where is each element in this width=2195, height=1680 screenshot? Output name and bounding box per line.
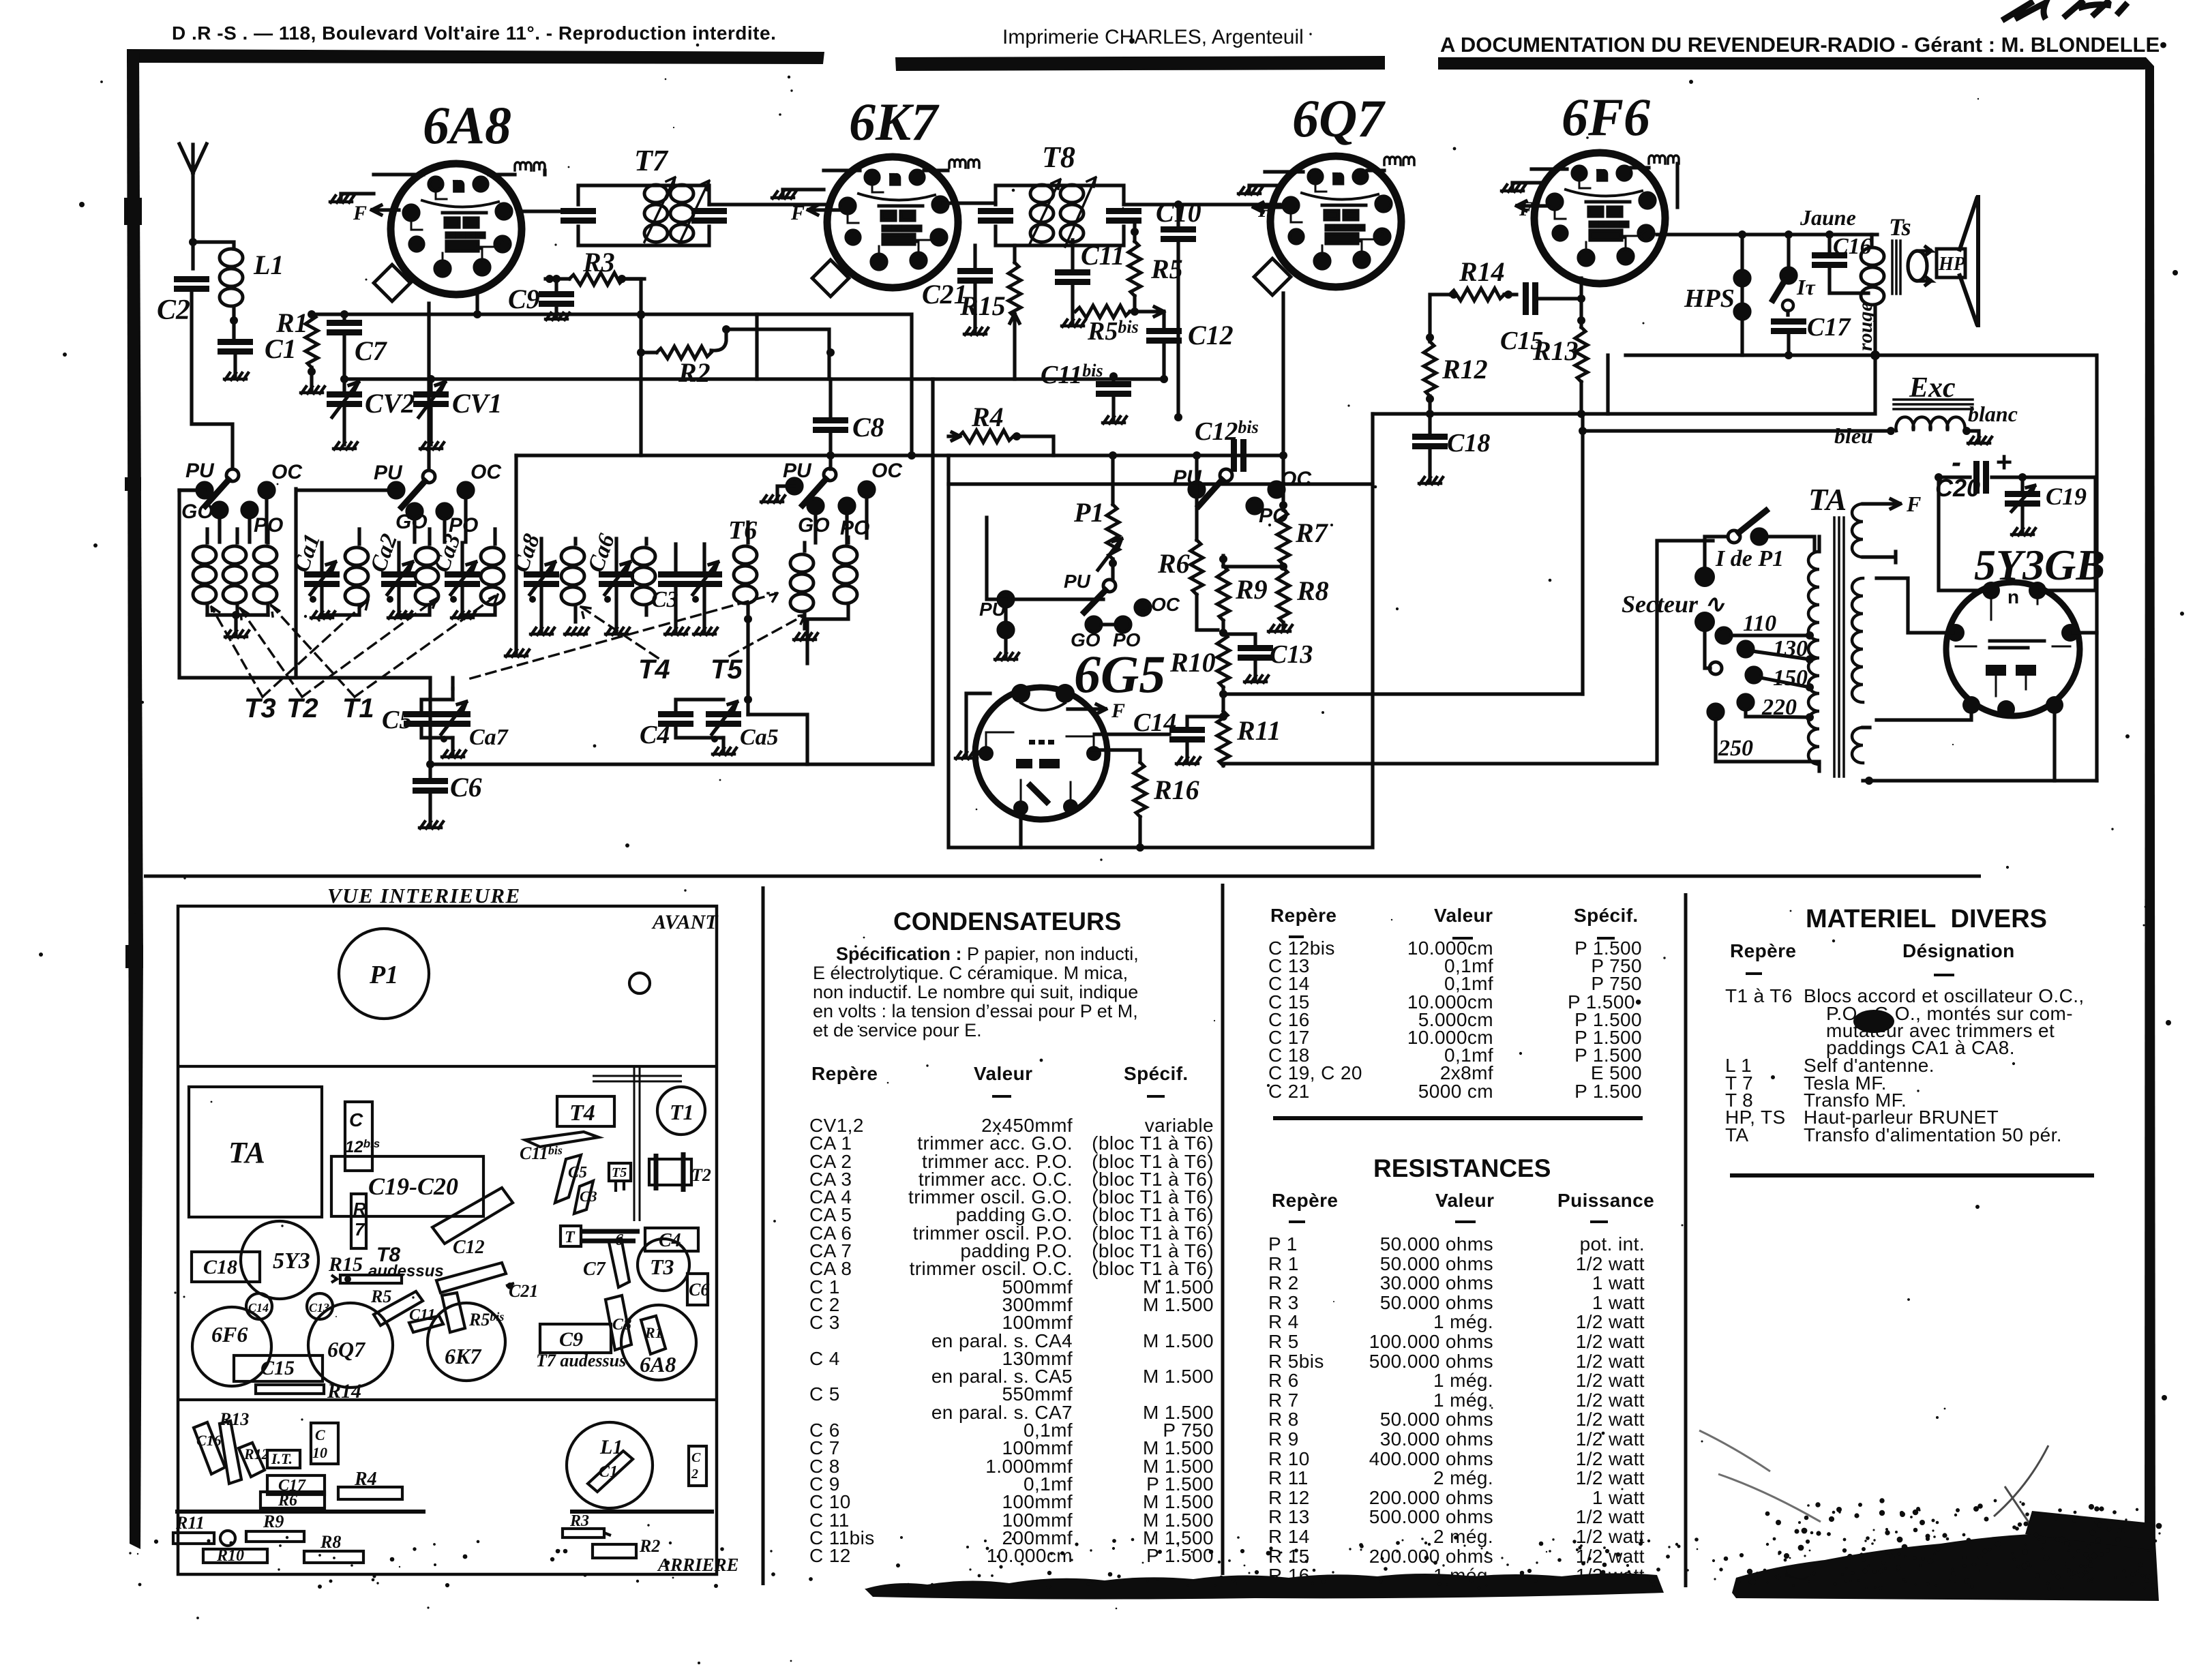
capacitor C13 (1223, 634, 1273, 679)
svg-text:R14: R14 (327, 1380, 361, 1402)
antenna (179, 144, 207, 269)
capacitor C4 (658, 700, 723, 738)
variable capacitor CV2 (327, 379, 362, 445)
svg-text:C: C (349, 1109, 363, 1130)
resistor R15 strip (331, 1275, 402, 1283)
svg-text:6Q7: 6Q7 (1292, 89, 1386, 148)
coil T6 (734, 522, 757, 715)
svg-text:OC: OC (1281, 468, 1312, 490)
ground Ca3 (451, 612, 475, 618)
ground SW5 (995, 653, 1019, 660)
wire bus y690 (516, 453, 1282, 457)
svg-text:AVANT: AVANT (651, 911, 719, 933)
node IT tap (1785, 230, 1793, 239)
wire R13 to y1006 (1581, 414, 1584, 694)
cap C5 strip (555, 1155, 581, 1203)
svg-text:1 még.: 1 még. (1433, 1390, 1493, 1411)
svg-text:I de P1: I de P1 (1715, 546, 1784, 571)
switch SW1 (179, 469, 274, 542)
svg-text:R 14: R 14 (1268, 1526, 1310, 1547)
tube T1 circle (657, 1087, 705, 1135)
column rule 3 (1684, 893, 1688, 1587)
svg-text:Repère: Repère (1730, 940, 1796, 961)
svg-text:PU: PU (783, 460, 812, 482)
cap C17 box lower (267, 1475, 325, 1495)
svg-text:50.000 ohms: 50.000 ohms (1380, 1233, 1493, 1255)
capacitor C7 (327, 310, 362, 383)
svg-text:E électrolytique. C céramique.: E électrolytique. C céramique. M mica, (813, 963, 1128, 983)
svg-text:PO: PO (840, 517, 869, 539)
svg-text:6A8: 6A8 (423, 95, 511, 155)
svg-text:R1: R1 (644, 1324, 663, 1341)
svg-text:M 1.500: M 1.500 (1143, 1330, 1214, 1351)
svg-text:PO: PO (449, 514, 478, 537)
ground C3 Ca4 (665, 628, 717, 635)
svg-text:R 5bis: R 5bis (1268, 1351, 1324, 1372)
svg-text:TA: TA (1808, 482, 1847, 517)
switch SW5 (987, 517, 1150, 657)
wire C8 riser (828, 379, 832, 416)
coil bank4b (807, 537, 857, 663)
svg-text:HPS: HPS (1684, 284, 1735, 313)
svg-text:F: F (1519, 198, 1533, 220)
resistor R14 strip (256, 1385, 324, 1394)
cap C18 box (192, 1252, 260, 1282)
resistor R6 box lower (260, 1492, 325, 1510)
trimmer T5 block (609, 1163, 631, 1192)
svg-text:R13: R13 (219, 1409, 249, 1429)
svg-text:C3: C3 (580, 1188, 597, 1205)
svg-text:TA: TA (1725, 1124, 1749, 1145)
ground coil4a (794, 633, 818, 640)
svg-text:R 12: R 12 (1268, 1487, 1310, 1508)
transformer TA sec F (1852, 499, 1900, 562)
ground under R8 (1268, 625, 1292, 632)
cap C2 box lower (689, 1446, 706, 1486)
svg-text:30.000 ohms: 30.000 ohms (1380, 1272, 1493, 1293)
svg-text:pot. int.: pot. int. (1580, 1233, 1645, 1255)
ground under C13 (1244, 676, 1268, 682)
node L1 bottom (230, 316, 238, 325)
cap C11 strip (409, 1306, 443, 1332)
svg-text:T3: T3 (650, 1255, 674, 1279)
resistor R13 (1575, 278, 1587, 418)
chassis rail right (570, 1510, 714, 1514)
svg-text:C11: C11 (1081, 240, 1124, 271)
wire 6F6 plate line (1657, 232, 1872, 236)
resistor R10 (1217, 633, 1229, 711)
svg-text:L1: L1 (253, 250, 284, 280)
wire T7 to 6K7 (709, 202, 827, 206)
cap C10 box lower (311, 1423, 338, 1464)
svg-text:1/2 watt: 1/2 watt (1576, 1311, 1645, 1332)
svg-text:T7 audessus: T7 audessus (536, 1351, 626, 1370)
wire bus y1061 (1223, 541, 1713, 764)
node antenna-L1 (189, 238, 197, 246)
node C16 tap (1825, 230, 1834, 239)
trimmer Ca7 (435, 689, 471, 754)
switch SW2 (389, 470, 473, 542)
transfo T4 box (557, 1096, 614, 1126)
wire 6G5 F arrow (1068, 704, 1106, 714)
svg-text:R4: R4 (971, 402, 1004, 432)
capacitor C12 (1146, 312, 1182, 383)
label R7 chassis (353, 1199, 366, 1240)
transformer TA primary (1808, 537, 1819, 771)
wire 6A8 plate drop (473, 293, 481, 318)
cap C6 box (687, 1274, 708, 1305)
border top bar left segment (127, 49, 824, 64)
resistor R7 (1277, 293, 1289, 565)
switch secteur I de P1 (1705, 511, 1815, 569)
svg-text:1/2 watt: 1/2 watt (1576, 1370, 1645, 1391)
transfo TA box (189, 1087, 322, 1217)
svg-text:R 15: R 15 (1268, 1546, 1310, 1567)
svg-text:Iτ: Iτ (1796, 275, 1816, 299)
svg-text:R 2: R 2 (1268, 1272, 1299, 1293)
svg-text:C 5: C 5 (809, 1383, 840, 1405)
cap C11bis strip (525, 1132, 599, 1147)
trimmer Ca5 (706, 702, 741, 751)
resistor R12 (1424, 295, 1451, 418)
svg-text:R 6: R 6 (1268, 1370, 1299, 1391)
cap C8 strip (606, 1295, 631, 1350)
transformer T7 (561, 177, 727, 245)
transformer TA sec fil5Y3 (1852, 727, 1873, 785)
cap C15 box (234, 1355, 323, 1381)
tube 6F6 chassis circle (192, 1307, 271, 1386)
svg-text:F: F (353, 202, 367, 224)
terminal secteur top (1694, 567, 1715, 587)
tube 6K7 (812, 157, 958, 297)
svg-text:1/2 watt: 1/2 watt (1576, 1428, 1645, 1450)
svg-text:C9: C9 (508, 284, 540, 314)
svg-text:150: 150 (1773, 665, 1808, 691)
svg-text:5Y3GB: 5Y3GB (1974, 541, 2105, 589)
border left vertical bar (127, 49, 143, 1549)
svg-text:R5: R5 (370, 1287, 391, 1306)
crease line right (1994, 1445, 2048, 1527)
switch IT (1773, 235, 1796, 315)
svg-text:C17: C17 (1807, 313, 1851, 342)
svg-text:C14: C14 (1133, 708, 1176, 737)
labels SW2 (374, 461, 502, 537)
ink blob over GO (1853, 1010, 1894, 1033)
capacitor C9 (539, 275, 574, 316)
wire 5Y3 plate left (1939, 477, 1988, 590)
svg-text:1 watt: 1 watt (1592, 1272, 1645, 1293)
svg-text:T6: T6 (728, 516, 757, 545)
svg-text:F: F (1906, 492, 1921, 516)
svg-text:T: T (565, 1229, 576, 1246)
ground under CV2 (333, 442, 357, 449)
labels SW3 (783, 460, 903, 539)
coil L1 circle (567, 1422, 653, 1508)
svg-text:Désignation: Désignation (1902, 940, 2015, 961)
resistor R5 (1129, 225, 1141, 316)
switch SW3 (777, 468, 874, 543)
resistor R12 strip lower (239, 1443, 269, 1477)
wire 5Y3 filament right (2073, 631, 2097, 634)
svg-text:CV1: CV1 (452, 388, 502, 419)
svg-text:Ca7: Ca7 (469, 725, 509, 750)
svg-text:C8: C8 (852, 412, 884, 442)
resistor R9 (1217, 555, 1229, 637)
node HPS tap (1738, 230, 1746, 239)
trimmer Ca2 (381, 543, 417, 615)
resistor R9 strip (246, 1512, 304, 1542)
svg-text:50.000 ohms: 50.000 ohms (1380, 1409, 1493, 1430)
resistor R4 (949, 430, 1054, 455)
svg-text:ARRIERΕ: ARRIERΕ (657, 1555, 739, 1575)
svg-text:C18: C18 (1447, 429, 1490, 457)
svg-text:C19-C20: C19-C20 (368, 1173, 458, 1200)
wire bus y521 (1626, 355, 2097, 781)
svg-text:MATERIEL DIVERS: MATERIEL DIVERS (1806, 905, 2047, 933)
svg-text:n: n (2007, 586, 2019, 607)
border left bar blobs (124, 198, 143, 968)
svg-text:PO: PO (1113, 629, 1141, 650)
rule under table2 (1273, 1116, 1643, 1120)
svg-text:R9: R9 (263, 1512, 284, 1531)
svg-text:-: - (1952, 446, 1961, 478)
ground under C11 (1062, 320, 1086, 327)
ground F 6F6 (1502, 169, 1567, 211)
dashed pointers T4 T5 (471, 593, 805, 678)
ground under C18 (1419, 477, 1443, 484)
svg-text:A DOCUMENTATION DU REVENDEUR-R: A DOCUMENTATION DU REVENDEUR-RADIO - Gér… (1440, 33, 2167, 57)
svg-text:T1 à T6: T1 à T6 (1725, 985, 1793, 1006)
svg-text:R12: R12 (1442, 354, 1488, 385)
svg-text:R14: R14 (1459, 256, 1505, 287)
ground Ca6 (606, 628, 629, 635)
svg-text:2: 2 (691, 1467, 698, 1482)
cap C14 circle (246, 1293, 272, 1319)
svg-text:6F6: 6F6 (211, 1322, 248, 1347)
coil bank2b (399, 529, 438, 615)
svg-text:7: 7 (355, 1219, 365, 1240)
svg-text:6K7: 6K7 (849, 92, 940, 151)
chassis hline2 (178, 1398, 717, 1401)
svg-text:R7: R7 (1295, 517, 1329, 548)
resistor R5 strip (370, 1287, 423, 1325)
svg-text:1/2 watt: 1/2 watt (1576, 1467, 1645, 1488)
svg-text:R 8: R 8 (1268, 1409, 1299, 1430)
tube 6Q7 (1254, 156, 1401, 295)
svg-text:C6: C6 (450, 772, 482, 802)
svg-text:1/2 watt: 1/2 watt (1576, 1253, 1645, 1274)
switch IT box (267, 1450, 300, 1468)
svg-text:Puissance: Puissance (1557, 1190, 1654, 1211)
cap C12bis box (345, 1102, 372, 1171)
svg-text:GO: GO (181, 500, 213, 523)
labels SW5 (979, 571, 1180, 650)
svg-text:C2: C2 (157, 295, 190, 326)
wire group3 drop (514, 455, 518, 653)
node bus-1337 (908, 451, 916, 460)
svg-text:F: F (1257, 199, 1272, 222)
svg-text:Imprimerie CHARLES, Argenteuil: Imprimerie CHARLES, Argenteuil (1002, 26, 1304, 48)
svg-text:1/2 watt: 1/2 watt (1576, 1331, 1645, 1352)
resistor R7 box (351, 1194, 366, 1248)
coil bank3b (632, 539, 655, 615)
node rouge-y521 (1871, 351, 1879, 359)
svg-text:Transfo d'alimentation 50 pér.: Transfo d'alimentation 50 pér. (1804, 1124, 2062, 1145)
svg-text:D .R -S . — 118, Boulevard Vol: D .R -S . — 118, Boulevard Volt'aire 11°… (172, 22, 776, 44)
trimmer Ca8 (524, 539, 559, 631)
wire box2 left edge (179, 489, 389, 678)
svg-text:Repère: Repère (1270, 905, 1337, 926)
tube 6Q7 chassis circle (308, 1303, 393, 1387)
label C12bis chassis (345, 1109, 380, 1156)
border top bar right segment (1438, 57, 2154, 70)
svg-text:VUE INTERIEURE: VUE INTERIEURE (327, 884, 521, 907)
wire 6A8 grid down (427, 303, 430, 469)
wire 6K7 to T8 (943, 201, 996, 205)
resistor R8 (1223, 562, 1289, 629)
capacitor C15 (1523, 282, 1581, 315)
svg-text:Spécif.: Spécif. (1124, 1063, 1189, 1084)
svg-text:1 watt: 1 watt (1592, 1487, 1645, 1508)
coil bank2a (322, 529, 368, 615)
coil bank4a (790, 543, 813, 629)
capacitor C10 (1161, 200, 1196, 421)
capacitor C11 (1055, 240, 1090, 323)
wire 5Y3 plate right (2040, 477, 2095, 590)
svg-text:C3: C3 (651, 587, 678, 612)
svg-text:non inductif. Le nombre qui su: non inductif. Le nombre qui suit, indiqu… (813, 982, 1138, 1002)
svg-text:1/2 watt: 1/2 watt (1576, 1448, 1645, 1469)
svg-text:C16: C16 (1833, 234, 1872, 259)
capacitor C21 (957, 245, 993, 331)
wire 5Y3 bottom right drop (2052, 714, 2056, 781)
labels SW1 (181, 460, 303, 537)
pot P1 circle (339, 929, 429, 1019)
svg-text:Spécification : P papier, non: Spécification : P papier, non inducti, (836, 944, 1139, 964)
svg-text:R16: R16 (1153, 775, 1199, 805)
svg-text:1/2 watt: 1/2 watt (1576, 1526, 1645, 1547)
wire 6G5 cathode (1019, 815, 1022, 847)
capacitor C18 (1412, 417, 1448, 481)
capacitor C2 (174, 276, 233, 469)
svg-text:Valeur: Valeur (1434, 905, 1493, 926)
svg-text:2 még.: 2 még. (1433, 1526, 1493, 1547)
selector tap 150 (1746, 667, 1814, 691)
resistor R3 strip (563, 1512, 611, 1537)
resistor R6 (1191, 451, 1218, 630)
capacitor C3 (658, 544, 693, 631)
caps C19-C20 box (331, 1156, 483, 1216)
wire right box edge (931, 379, 934, 764)
transfo T2 block (649, 1152, 711, 1192)
svg-text:T3: T3 (244, 693, 276, 723)
svg-text:CV2: CV2 (365, 388, 415, 419)
svg-text:R 1: R 1 (1268, 1253, 1299, 1274)
svg-text:M 1.500: M 1.500 (1143, 1294, 1214, 1315)
ground coil bank1 (225, 631, 249, 637)
cap C9 box (540, 1324, 611, 1353)
svg-text:Spécif.: Spécif. (1574, 905, 1639, 926)
wire bus y632 (1583, 429, 1891, 432)
svg-text:R6: R6 (278, 1492, 297, 1510)
resistor R11 (1217, 711, 1229, 766)
svg-text:R8: R8 (1296, 575, 1329, 606)
svg-text:PU: PU (374, 462, 403, 484)
svg-text:C: C (691, 1450, 701, 1465)
svg-text:C1: C1 (599, 1463, 618, 1481)
wire bus y1145 (1869, 779, 2097, 782)
separator line (144, 875, 1981, 878)
svg-text:P1: P1 (369, 961, 398, 989)
svg-text:C12: C12 (453, 1237, 485, 1258)
svg-text:T7: T7 (634, 144, 669, 177)
ground Ca1 (311, 612, 335, 618)
trimmer Ca1 (304, 543, 340, 615)
table3 rows (1268, 1233, 1645, 1255)
svg-text:Ca5: Ca5 (740, 725, 779, 750)
svg-text:T2: T2 (691, 1165, 711, 1185)
svg-text:C 4: C 4 (809, 1348, 840, 1369)
trimmer Ca6 (599, 539, 634, 631)
variable capacitor CV1 (413, 375, 449, 445)
capacitor C11bis (1096, 372, 1131, 420)
svg-text:C12: C12 (1188, 320, 1234, 350)
resistor R11 strip (173, 1513, 214, 1544)
handwritten 1511 (2002, 0, 2127, 20)
ground Ca2 (388, 612, 412, 618)
label T8 audessus (368, 1244, 444, 1280)
capacitor C14 (1094, 717, 1223, 761)
resistor R1 strip (641, 1316, 666, 1354)
svg-text:C10: C10 (1156, 197, 1201, 228)
terminal secteur bottom (1694, 612, 1715, 668)
svg-text:R 13: R 13 (1268, 1506, 1310, 1527)
capacitor C19 (2005, 473, 2040, 532)
column rule 2 (1221, 884, 1225, 1575)
resistor R10 box (203, 1547, 267, 1565)
chassis rail left (175, 1510, 425, 1514)
svg-text:TA: TA (228, 1136, 265, 1169)
svg-text:R12: R12 (243, 1445, 269, 1462)
svg-text:F: F (1111, 700, 1125, 722)
svg-text:C 3: C 3 (809, 1312, 840, 1333)
capacitor C5 (404, 700, 453, 738)
border right vertical bar (2145, 66, 2155, 1594)
ground F 6A8 (330, 175, 423, 215)
capacitor C8 (813, 417, 848, 469)
transformer TA core (1834, 517, 1844, 777)
label C20 (1935, 446, 2012, 502)
svg-text:RESISTANCES: RESISTANCES (1373, 1154, 1551, 1182)
svg-text:R 3: R 3 (1268, 1292, 1299, 1313)
svg-text:Exc: Exc (1909, 372, 1956, 404)
svg-text:R3: R3 (582, 247, 615, 277)
svg-text:200.000 ohms: 200.000 ohms (1369, 1487, 1493, 1508)
ground Ca8 (531, 628, 554, 635)
svg-text:P 1.500: P 1.500 (1574, 1081, 1642, 1102)
switch SW4 (1189, 469, 1284, 513)
ground coil3a (565, 628, 588, 635)
capacitor C17 (1771, 318, 1806, 359)
column rule 1 (762, 886, 765, 1585)
svg-text:OC: OC (271, 461, 303, 483)
svg-text:C18: C18 (203, 1256, 237, 1278)
svg-text:R 5: R 5 (1268, 1331, 1299, 1352)
wire bus y1006 (1223, 692, 1583, 695)
svg-text:C15: C15 (260, 1357, 295, 1379)
svg-text:C: C (315, 1426, 325, 1443)
ground C5 Ca7 (442, 751, 466, 757)
